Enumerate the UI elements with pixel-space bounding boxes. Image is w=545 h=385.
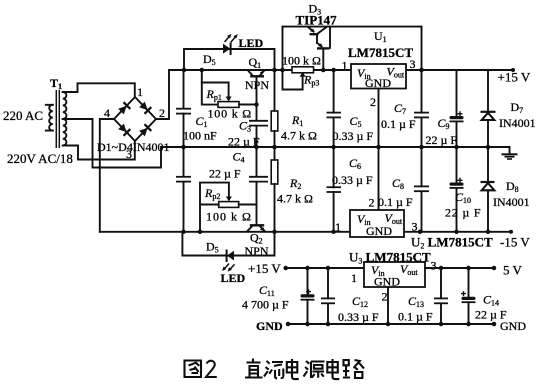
- capacitor C13: [440, 268, 442, 324]
- 路: [343, 360, 364, 378]
- node: Q1 base / C3 / C4 / Q2 base vertical: [256, 85, 258, 225]
- diode D in edge 1-2: [139, 101, 152, 114]
- wire U3 output 5V: [425, 267, 494, 269]
- svg-text:-15 V: -15 V: [500, 235, 530, 250]
- 电: [327, 359, 339, 379]
- wire +15V feed to U3: [286, 267, 364, 269]
- svg-text:4 700 µ F: 4 700 µ F: [242, 298, 289, 312]
- svg-text:2: 2: [370, 95, 376, 109]
- svg-text:220V AC/18: 220V AC/18: [7, 151, 73, 166]
- capacitor C4: [249, 176, 268, 178]
- capacitor C5: [333, 70, 335, 147]
- capacitor C1 riser and plates: [183, 70, 185, 147]
- svg-text:0.1 µ F: 0.1 µ F: [381, 117, 416, 131]
- wire secondary top to bridge node 1: [65, 83, 135, 97]
- svg-text:TIP147: TIP147: [296, 13, 338, 28]
- regulator U1 LM7815CT: [351, 64, 406, 90]
- 流: [264, 361, 283, 378]
- capacitor C10 (electrolytic): [456, 147, 458, 232]
- wire secondary bottom to bridge node 3: [65, 141, 135, 160]
- svg-text:1: 1: [351, 271, 357, 285]
- resistor R2: [274, 147, 276, 160]
- svg-text:100 k Ω: 100 k Ω: [206, 210, 252, 224]
- svg-text:5 V: 5 V: [503, 263, 523, 278]
- 图: [185, 361, 202, 378]
- svg-text:22 µ F: 22 µ F: [426, 133, 458, 147]
- capacitor C12: [327, 268, 329, 324]
- potentiometer Rp1: [202, 70, 257, 107]
- svg-text:4.7 k Ω: 4.7 k Ω: [277, 192, 313, 206]
- capacitor C14 (electrolytic): [468, 268, 470, 324]
- junction dots on + rail: [182, 68, 187, 73]
- resistor R1: [274, 70, 276, 111]
- capacitor C7: [421, 70, 423, 147]
- LED D5 bottom: [223, 250, 234, 271]
- svg-text:4.7 k Ω: 4.7 k Ω: [281, 129, 317, 143]
- svg-text:GND: GND: [366, 224, 392, 238]
- svg-text:1: 1: [335, 220, 341, 234]
- svg-text:LM7815CT: LM7815CT: [348, 45, 413, 60]
- svg-text:LED: LED: [239, 36, 264, 50]
- 电: [287, 359, 299, 379]
- svg-text:3: 3: [412, 220, 418, 234]
- 直: [245, 359, 263, 378]
- wire center tap to mid GND rail: [65, 119, 161, 168]
- svg-text:2: 2: [382, 290, 388, 304]
- svg-text:IN4001: IN4001: [499, 116, 536, 130]
- svg-text:+15 V: +15 V: [248, 261, 281, 276]
- transistor Q2: [247, 225, 265, 231]
- svg-text:1: 1: [342, 59, 348, 73]
- transformer T1: [46, 76, 67, 148]
- svg-text:0.33 µ F: 0.33 µ F: [333, 129, 374, 143]
- LED D5 top: [223, 35, 237, 55]
- capacitor C9 (electrolytic): [456, 70, 458, 147]
- svg-text:0.33 µ F: 0.33 µ F: [332, 173, 373, 187]
- 源: [304, 361, 325, 378]
- svg-text:100 k Ω: 100 k Ω: [282, 54, 321, 68]
- svg-text:22 µ F: 22 µ F: [445, 206, 481, 220]
- mid GND rail: [161, 146, 510, 148]
- LED indicator box bottom: [182, 232, 274, 256]
- svg-text:100 nF: 100 nF: [183, 129, 217, 143]
- svg-text:D1~D4IN4001: D1~D4IN4001: [97, 140, 170, 154]
- capacitor C11 (electrolytic 4700uF): [307, 268, 309, 324]
- svg-text:0.1 µ F: 0.1 µ F: [398, 310, 433, 324]
- diode D in edge 4-3: [118, 123, 131, 136]
- svg-text:+15 V: +15 V: [498, 70, 531, 85]
- svg-text:220 AC: 220 AC: [3, 108, 43, 123]
- svg-text:LED: LED: [221, 271, 246, 285]
- wire U1 GND to U2 GND (common): [378, 89, 380, 211]
- svg-text:22 µ F: 22 µ F: [228, 135, 260, 149]
- svg-text:IN4001: IN4001: [493, 195, 530, 209]
- diode D7: [487, 70, 489, 147]
- wire bridge node 4 down to negative rail: [100, 119, 114, 232]
- ground symbol: [502, 147, 518, 159]
- svg-text:0.33 µ F: 0.33 µ F: [338, 310, 379, 324]
- transistor Q1: [248, 70, 265, 85]
- negative bottom rail: [100, 231, 511, 233]
- svg-text:GND: GND: [256, 319, 283, 333]
- svg-text:3: 3: [431, 259, 437, 273]
- svg-text:3: 3: [410, 57, 416, 71]
- LED indicator box top wire: [184, 49, 275, 70]
- svg-text:2: 2: [159, 106, 165, 120]
- diode D8: [487, 147, 489, 232]
- svg-text:2: 2: [369, 196, 375, 210]
- svg-text:1: 1: [137, 85, 143, 99]
- caption 图 2 直流电源电路 (hand-drawn strokes): [185, 359, 365, 380]
- bridge rectifier D1~D4: [97, 85, 170, 161]
- diode D in edge 3-2: [139, 124, 152, 137]
- capacitor C3: [249, 120, 268, 122]
- potentiometer Rp2: [200, 183, 257, 232]
- regulator U3 LM7815CT: [364, 262, 425, 289]
- 2: [206, 361, 217, 377]
- capacitor C6: [333, 147, 335, 232]
- wire bridge node 2 up to positive rail: [156, 70, 169, 119]
- svg-text:22 µ F: 22 µ F: [209, 167, 241, 181]
- darlington D3 TIP147: [283, 27, 422, 70]
- wire U3 GND down: [387, 287, 389, 324]
- svg-text:4: 4: [104, 106, 110, 120]
- regulator U2 LM7815CT: [350, 210, 404, 238]
- svg-text:GND: GND: [500, 319, 526, 333]
- GND rail bottom section: [288, 323, 494, 325]
- potentiometer Rp3 on rail: [283, 67, 314, 90]
- diode D in edge 4-1: [118, 102, 131, 115]
- svg-text:0.1 µ F: 0.1 µ F: [378, 195, 413, 209]
- capacitor C2 (lower left, unlabeled): [183, 147, 185, 232]
- junction dots on negative rail: [198, 230, 203, 235]
- positive main rail +15V unregulated: [169, 69, 513, 71]
- capacitor C8: [421, 147, 423, 232]
